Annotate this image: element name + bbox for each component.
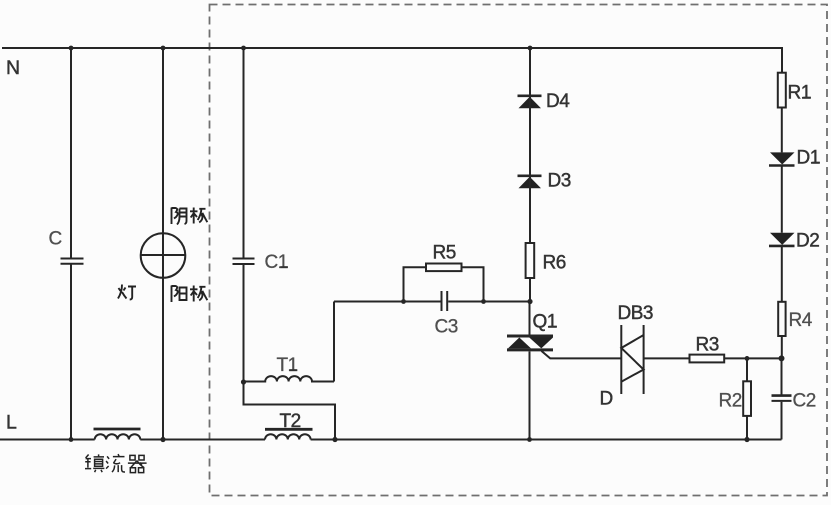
svg-text:T1: T1 — [277, 355, 298, 376]
wire right branch from N rail — [781, 47, 783, 73]
resistor R4 body — [778, 302, 785, 336]
lamp filament line — [141, 254, 186, 256]
wire R1 to D1 — [781, 108, 783, 153]
diode D3 — [518, 176, 542, 188]
label 镇流器 (ballast) — [85, 454, 147, 473]
resistor R5 body — [426, 264, 462, 272]
svg-text:D: D — [600, 389, 614, 410]
junction R4 C2 on trigger wire — [779, 355, 785, 361]
svg-text:R5: R5 — [433, 242, 456, 263]
svg-text:D3: D3 — [548, 171, 571, 192]
wire T1 return to L rail — [244, 382, 336, 440]
label 灯 (lamp) — [118, 285, 136, 300]
junction D4 branch on N rail — [528, 46, 533, 51]
capacitor C wires — [70, 48, 72, 440]
wire N rail — [2, 47, 782, 49]
junction R2 top on trigger wire — [745, 356, 750, 361]
junction T1 return on L rail — [332, 437, 337, 442]
wire gate RC horizontal — [334, 301, 530, 303]
wire L rail middle segment — [140, 439, 265, 441]
capacitor C plates — [61, 259, 84, 264]
transformer T2 core bar — [265, 428, 313, 431]
junction C1 to T1 node — [241, 379, 246, 384]
svg-text:R2: R2 — [719, 391, 742, 412]
dashed enclosure box — [210, 5, 828, 496]
diac DB3 — [621, 325, 643, 394]
junction lamp branch on N rail — [161, 46, 166, 51]
capacitor C3 plates — [442, 291, 448, 311]
capacitor C2 wires — [781, 358, 783, 439]
lamp wires — [162, 48, 164, 440]
resistor R2 body — [743, 381, 751, 416]
svg-text:L: L — [6, 412, 17, 434]
svg-text:C1: C1 — [265, 252, 288, 273]
junction R6 to Q1 gate node — [527, 299, 532, 304]
transformer winding T1 — [244, 376, 335, 381]
wire gate lead from Q1 — [542, 351, 622, 358]
svg-text:C3: C3 — [435, 317, 458, 338]
resistor R3 body — [690, 355, 725, 363]
wire R6 to gate node — [529, 278, 531, 302]
transformer winding T2 coil — [265, 434, 311, 439]
wire triac Q1 to L rail — [529, 352, 531, 440]
junction lamp branch on L rail — [160, 437, 165, 442]
digit serif feet for numeral 1 glyphs — [280, 97, 820, 371]
wire gate node to triac Q1 — [529, 302, 531, 335]
capacitor C1 plates — [233, 259, 255, 265]
svg-text:DB3: DB3 — [618, 303, 653, 324]
wire T1 up to gate node — [333, 302, 335, 382]
junction R5 loop left on gate wire — [401, 299, 406, 304]
diode D1 — [769, 152, 795, 165]
junction R2 on L rail — [744, 437, 749, 442]
svg-text:R1: R1 — [788, 83, 811, 104]
junction C branch on L rail — [69, 437, 74, 442]
junction R5 loop right on gate wire — [481, 299, 486, 304]
wire D2 to R4 — [781, 247, 783, 302]
wire R4 to gate node — [781, 336, 783, 358]
wire L rail left segment — [0, 439, 95, 441]
wire D1 to D2 — [781, 166, 783, 233]
wire L rail right segment — [311, 439, 782, 441]
lamp circle — [141, 233, 186, 278]
triac Q1 — [507, 336, 553, 350]
diode D2 — [769, 233, 795, 246]
svg-text:C: C — [49, 229, 63, 250]
resistor R2 wires — [746, 358, 748, 439]
svg-text:D1: D1 — [797, 148, 820, 169]
wire DB3 to R3 — [644, 357, 690, 359]
resistor R5 loop wires — [404, 267, 484, 301]
svg-text:T2: T2 — [280, 411, 301, 432]
wire R3 to right node — [724, 357, 781, 359]
svg-text:N: N — [6, 57, 20, 79]
svg-text:R4: R4 — [789, 310, 813, 331]
junction C1 branch on N rail — [241, 46, 246, 51]
wire D4 to D3 — [529, 108, 531, 175]
ballast core bar — [94, 428, 141, 431]
capacitor C2 plates — [772, 394, 792, 397]
svg-text:C2: C2 — [793, 391, 816, 412]
wire D4 branch top — [529, 48, 531, 95]
svg-text:R3: R3 — [696, 335, 719, 356]
label 阳极 (anode) — [172, 286, 208, 303]
junction C branch on N rail — [69, 46, 74, 51]
wire D3 to R6 — [529, 188, 531, 243]
capacitor C1 wires — [243, 48, 245, 382]
svg-text:D4: D4 — [546, 91, 570, 112]
svg-text:Q1: Q1 — [533, 312, 557, 333]
ballast inductor coil — [95, 434, 141, 439]
svg-text:D2: D2 — [796, 231, 819, 252]
svg-text:R6: R6 — [543, 253, 566, 274]
resistor R6 body — [526, 243, 535, 278]
junction Q1 on L rail — [527, 437, 532, 442]
label 阴极 (cathode) — [172, 208, 208, 225]
resistor R1 body — [778, 73, 786, 108]
diode D4 — [518, 96, 542, 108]
